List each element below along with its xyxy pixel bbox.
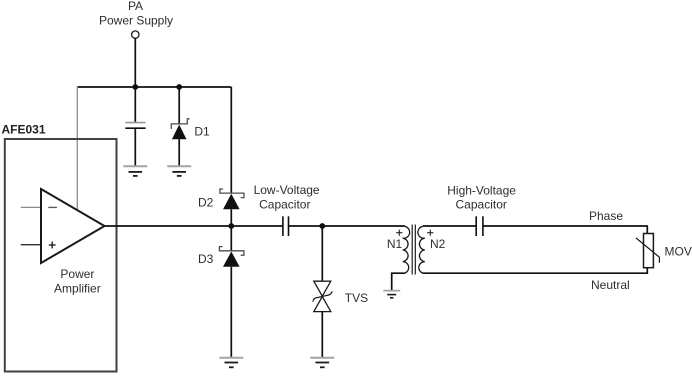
svg-text:AFE031: AFE031 <box>2 123 46 137</box>
junction dot at D1 tap <box>176 84 182 90</box>
junction dot at C1 tap <box>132 84 138 90</box>
wire from C1 down to ground <box>134 128 136 165</box>
wire from D1 down to ground <box>178 139 180 165</box>
svg-text:Capacitor: Capacitor <box>259 197 310 211</box>
wire from PA terminal down to supply rail <box>134 38 136 87</box>
TVS bidirectional diode <box>313 281 332 311</box>
terminal PA power supply <box>132 31 139 38</box>
pin plus sign <box>49 242 56 249</box>
wire op-amp output to C2 <box>105 225 283 227</box>
svg-text:D3: D3 <box>198 252 214 266</box>
label High-Voltage Capacitor <box>447 183 516 211</box>
svg-text:D1: D1 <box>194 124 210 138</box>
wire supply rail down to D2 <box>230 87 232 193</box>
box AFE031 <box>5 139 117 372</box>
zener diode D2 <box>220 189 244 209</box>
wire non-inverting input <box>21 244 41 246</box>
svg-text:Neutral: Neutral <box>591 278 630 292</box>
ground under C1 <box>123 166 147 176</box>
transformer T1 primary winding N1 <box>403 226 410 273</box>
svg-text:Power: Power <box>60 267 94 281</box>
zener diode D3 <box>219 247 244 267</box>
wire inverting input <box>21 206 41 208</box>
wire neutral line <box>423 272 648 274</box>
svg-text:N1: N1 <box>387 237 403 251</box>
pin polarity plus secondary <box>427 230 433 236</box>
label Low-Voltage Capacitor <box>254 183 320 211</box>
svg-text:High-Voltage: High-Voltage <box>447 183 516 197</box>
wire C2 to transformer primary <box>289 225 405 227</box>
svg-text:Phase: Phase <box>589 209 623 223</box>
capacitor C2 low-voltage coupling <box>283 216 289 236</box>
svg-text:TVS: TVS <box>345 291 368 305</box>
wire D2 anode to output node <box>230 209 232 226</box>
varistor MOV <box>636 234 660 268</box>
pin minus sign <box>48 206 57 208</box>
capacitor C3 high-voltage coupling <box>476 216 483 236</box>
svg-text:Power Supply: Power Supply <box>99 14 173 28</box>
transformer T1 core <box>412 225 415 275</box>
svg-text:N2: N2 <box>430 237 446 251</box>
node PA Power Supply label <box>99 0 173 28</box>
wire gray supply drop into AFE031 <box>76 86 78 210</box>
svg-text:D2: D2 <box>198 196 214 210</box>
svg-text:PA: PA <box>128 0 143 13</box>
ground under D1 <box>167 166 191 176</box>
op-amp U1 power amplifier <box>41 189 105 263</box>
wire from rail down to D1 <box>178 87 180 124</box>
wire TVS down to ground <box>321 312 323 357</box>
ground under D3 <box>219 358 243 368</box>
svg-text:MOV: MOV <box>665 245 692 259</box>
wire from rail down to C1 <box>134 87 136 122</box>
capacitor C1 (supply bypass) <box>125 123 145 129</box>
zener diode D1 <box>171 119 189 139</box>
svg-text:Capacitor: Capacitor <box>456 198 507 212</box>
wire supply rail horizontal <box>77 86 231 88</box>
wire primary bottom lead to ground <box>392 273 405 290</box>
label Power Amplifier <box>54 267 101 295</box>
wire phase corner down to MOV <box>646 225 648 233</box>
junction dot output node <box>228 223 234 229</box>
wire from D3 down to ground <box>230 267 232 357</box>
ground at transformer primary <box>383 291 400 298</box>
wire output node down to D3 <box>230 226 232 251</box>
ground under TVS <box>310 358 334 368</box>
transformer T1 secondary winding N2 <box>418 226 425 273</box>
wire MOV bottom to neutral corner <box>646 268 648 274</box>
pin polarity plus primary <box>396 230 402 236</box>
junction dot TVS node <box>319 223 325 229</box>
svg-text:Low-Voltage: Low-Voltage <box>254 183 320 197</box>
wire phase line <box>483 225 647 227</box>
wire TVS node down to TVS <box>321 226 323 281</box>
wire secondary top lead to C3 <box>423 225 476 227</box>
svg-text:Amplifier: Amplifier <box>54 281 101 295</box>
